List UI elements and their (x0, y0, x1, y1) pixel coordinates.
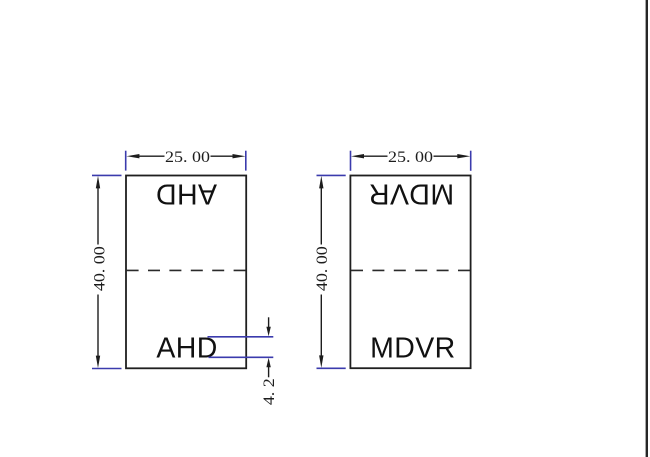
dimension 25.00 AHD: extension tick left (125, 151, 127, 171)
svg-text:4. 2: 4. 2 (260, 378, 278, 405)
fold line AHD (dashed) (127, 269, 246, 271)
dimension 40.00 AHD: dim line top segment (97, 182, 99, 245)
dimension 25.00 MDVR: extension tick left (350, 151, 352, 171)
dimension 40.00 MDVR: arrow top (319, 176, 323, 189)
dimension 25.00 MDVR: dim line right segment (434, 155, 465, 157)
table border right edge (646, 0, 648, 457)
dimension 4.2 text height: extension line bottom (209, 356, 274, 358)
label outline AHD (25x40) (126, 176, 246, 369)
dimension 25.00 MDVR: arrow left (351, 154, 364, 158)
label outline MDVR (25x40) (350, 176, 470, 369)
dimension 40.00 MDVR: dim line bottom segment (320, 295, 322, 363)
dimension 4.2: arrow up (266, 358, 270, 368)
svg-text:MDVR: MDVR (370, 332, 456, 364)
svg-text:40. 00: 40. 00 (91, 246, 109, 291)
dimension 40.00 MDVR: dim line top segment (320, 182, 322, 245)
dimension 4.2: lower leader line (268, 366, 270, 378)
dimension 40.00 MDVR: arrow bottom (319, 355, 323, 368)
dimension 25.00 AHD: dim line right segment (211, 155, 240, 157)
dimension 4.2: upper leader line (268, 317, 270, 328)
dimension 25.00 MDVR: dim line left segment (358, 155, 388, 157)
dimension 40.00 AHD: extension line bottom (92, 368, 122, 370)
dimension 40.00 AHD: extension line top (92, 174, 122, 176)
dimension 25.00 MDVR: arrow right (457, 154, 470, 158)
dimension 40.00 AHD: arrow top (96, 176, 100, 189)
dimension 4.2: arrow down (266, 327, 270, 337)
dimension 25.00 AHD: dim line left segment (133, 155, 165, 157)
svg-text:25. 00: 25. 00 (388, 148, 433, 166)
dimension 25.00 AHD: extension tick right (245, 151, 247, 171)
dimension 40.00 AHD: dim line bottom segment (97, 295, 99, 363)
dimension 40.00 MDVR: extension line top (317, 174, 346, 176)
svg-text:MDVR: MDVR (369, 178, 455, 210)
svg-text:25. 00: 25. 00 (165, 148, 210, 166)
dimension 25.00 AHD: arrow right (233, 154, 246, 158)
fold line MDVR (dashed) (351, 269, 470, 271)
dimension 25.00 AHD: arrow left (126, 154, 139, 158)
dimension 25.00 MDVR: extension tick right (470, 151, 472, 171)
svg-text:AHD: AHD (156, 178, 217, 210)
dimension 4.2 text height: extension line top (208, 336, 274, 338)
svg-text:40. 00: 40. 00 (313, 246, 331, 291)
dimension 40.00 AHD: arrow bottom (96, 356, 100, 369)
dimension 40.00 MDVR: extension line bottom (317, 367, 346, 369)
